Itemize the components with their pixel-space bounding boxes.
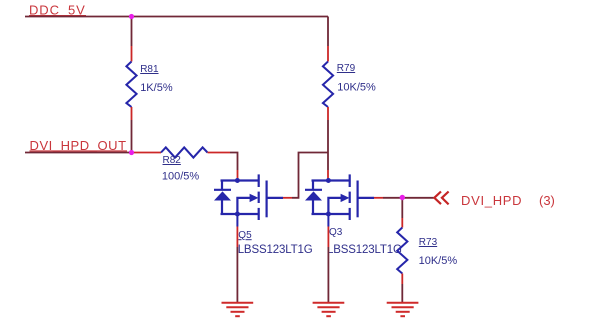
port chevron DVI_HPD [434, 192, 448, 205]
pin Q5 source stub [236, 214, 238, 227]
wire DVI_HPD node down to R73 [401, 198, 403, 218]
svg-text:100/5%: 100/5% [162, 170, 200, 182]
underline DDC_5V [29, 15, 86, 17]
wire Q5 gate up to R79 node [292, 153, 328, 198]
resistor R79 [323, 62, 333, 108]
resistor R81 [126, 62, 136, 108]
pin Q3 source lead [327, 227, 329, 248]
resistor R82 [161, 147, 208, 157]
pin R81 top lead [131, 46, 133, 62]
pin R79 bottom lead [327, 107, 329, 120]
underline DVI_HPD_OUT [30, 150, 128, 152]
junction dot at DVI_HPD_OUT [129, 150, 134, 155]
svg-text:10K/5%: 10K/5% [419, 255, 458, 267]
svg-text:R79: R79 [337, 63, 356, 74]
wire from R81 down to DVI_HPD_OUT rail [131, 120, 133, 153]
pin R79 top lead [327, 46, 329, 62]
svg-text:R82: R82 [163, 155, 182, 166]
svg-text:1K/5%: 1K/5% [140, 82, 173, 94]
junction dot Q3 source [326, 212, 331, 217]
wire top rail DDC_5V [25, 16, 328, 18]
svg-text:LBSS123LT1G: LBSS123LT1G [238, 244, 313, 256]
pin Q3 source stub [327, 214, 329, 227]
transistor Q5 arrow head [250, 194, 259, 202]
pin R73 bottom lead [401, 274, 403, 285]
svg-text:DVI_HPD: DVI_HPD [461, 193, 522, 208]
wire Q5 source to ground [236, 247, 238, 303]
ground (R73) [387, 303, 419, 317]
transistor Q5 body diode triangle [214, 191, 231, 200]
transistor Q3 arrow head [341, 194, 350, 202]
svg-text:Q3: Q3 [329, 227, 343, 238]
wire R82 to Q5 drain [230, 153, 238, 171]
transistor Q3 [305, 174, 374, 220]
wire DVI_HPD node to port [402, 197, 434, 199]
ground (Q5) [222, 303, 254, 317]
junction dot DVI_HPD node [400, 195, 405, 200]
wire R79 to Q3 drain node [327, 120, 329, 170]
pin Q5 drain lead [237, 170, 239, 181]
transistor Q3 body diode triangle [305, 191, 322, 200]
svg-text:(3): (3) [539, 193, 555, 208]
ground (Q3) [313, 303, 345, 317]
wire R73 to ground [401, 284, 403, 303]
pin Q5 source lead [236, 227, 238, 248]
svg-text:LBSS123LT1G: LBSS123LT1G [327, 244, 402, 256]
pin R82 right lead [208, 152, 231, 154]
pin R73 top lead [401, 218, 403, 228]
junction dot at DDC_5V rail [129, 14, 134, 19]
transistor Q5 [214, 174, 283, 220]
svg-text:10K/5%: 10K/5% [337, 81, 376, 93]
svg-text:Q5: Q5 [238, 230, 252, 241]
pin Q5 gate lead red [283, 197, 292, 199]
wire DVI_HPD_OUT rail [25, 152, 132, 154]
pin R82 left lead [132, 152, 162, 154]
pin R81 bottom lead [131, 107, 133, 120]
svg-text:R81: R81 [140, 64, 159, 75]
junction dot Q5 drain [235, 178, 240, 183]
pin Q3 drain lead [327, 170, 329, 181]
svg-text:R73: R73 [419, 237, 438, 248]
pin Q3 gate lead red [374, 197, 383, 199]
wire vertical from top rail to R81 [131, 17, 133, 47]
junction dot Q5 source [235, 212, 240, 217]
wire Q3 gate to DVI_HPD node [383, 197, 402, 199]
junction dot Q3 drain [326, 178, 331, 183]
resistor R73 [397, 228, 407, 274]
wire from top rail corner down to R79 [327, 17, 329, 47]
wire Q3 source to ground [327, 247, 329, 303]
